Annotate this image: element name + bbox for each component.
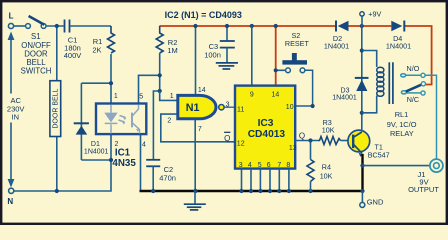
svg-text:5: 5 (139, 94, 143, 101)
svg-text:D1: D1 (91, 141, 100, 148)
GND stub (361, 191, 363, 203)
wire AC line arrow lower (10, 123, 12, 181)
svg-text:2K: 2K (92, 45, 101, 54)
svg-text:3: 3 (239, 162, 243, 169)
wire R3 to T1 base (341, 140, 353, 142)
svg-text:D3: D3 (341, 88, 350, 95)
svg-text:6: 6 (267, 162, 271, 169)
svg-text:IN: IN (12, 113, 20, 122)
junction N1 pin1 branch (158, 89, 162, 93)
wire collector up / D3 column (361, 26, 363, 132)
wire N1 pin2 + feedback (161, 114, 235, 142)
armature (406, 85, 422, 92)
wire switch to C1 (46, 25, 64, 27)
svg-text:OUTPUT: OUTPUT (408, 185, 439, 194)
junction S2/pin10 (311, 104, 315, 108)
junction door bell top (55, 24, 59, 28)
wire IC1 pin5 up (139, 75, 160, 103)
svg-text:Q: Q (224, 134, 230, 143)
svg-text:R4: R4 (322, 162, 331, 171)
IC3 bottom pin wires (242, 169, 289, 191)
wire coil bottom lead (362, 96, 377, 113)
resistor R4 (310, 141, 312, 160)
junction door bell bottom (55, 189, 59, 193)
svg-text:2: 2 (167, 117, 171, 124)
diode D1 (74, 122, 89, 124)
svg-text:RELAY: RELAY (390, 129, 414, 138)
svg-text:470n: 470n (159, 174, 176, 183)
wire D1 vertical (80, 83, 82, 160)
wire AC line arrow upper (10, 39, 12, 94)
svg-text:14: 14 (272, 91, 280, 98)
svg-text:BC547: BC547 (368, 150, 390, 159)
svg-text:1N4001: 1N4001 (324, 42, 349, 51)
svg-text:7: 7 (277, 162, 281, 169)
wire to J1 (363, 165, 430, 167)
transistor T1 (348, 130, 370, 152)
svg-text:5: 5 (258, 162, 262, 169)
svg-text:10: 10 (286, 104, 294, 111)
node N terminal (9, 188, 14, 193)
+9V node (360, 12, 364, 16)
svg-text:RESET: RESET (285, 39, 310, 48)
svg-text:14: 14 (198, 87, 206, 94)
svg-text:10K: 10K (322, 126, 335, 135)
svg-text:10K: 10K (320, 172, 333, 181)
junction R4 top (308, 138, 312, 142)
switch S2 plunger (292, 53, 297, 62)
wire rail D2 to D4 (349, 25, 392, 27)
svg-text:SWITCH: SWITCH (21, 67, 52, 76)
svg-text:1: 1 (170, 93, 174, 100)
junction pin5 branch (158, 73, 162, 77)
resistor R1 (108, 26, 115, 53)
connector J1 (430, 159, 443, 172)
wire R2 to C2 column (153, 53, 159, 160)
svg-text:13: 13 (289, 145, 297, 152)
wire D1 top branch (81, 82, 111, 84)
svg-text:9: 9 (250, 91, 254, 98)
capacitor C1 (64, 20, 66, 33)
svg-text:9V, 1C/O: 9V, 1C/O (387, 120, 417, 129)
wire D1 bottom branch (81, 159, 111, 161)
junction rail dots (193, 24, 197, 28)
wire pin13 to R3 (295, 140, 318, 142)
arrow down to N (8, 179, 15, 188)
wire emitter black (361, 154, 363, 191)
junction coil bottom branch (360, 111, 364, 115)
door bell box (50, 81, 61, 137)
junction coil top branch (360, 48, 364, 52)
svg-text:C2: C2 (164, 165, 174, 174)
wire R1 to IC1 pin1 (110, 54, 112, 104)
svg-text:400V: 400V (64, 51, 82, 60)
svg-text:IC2 (N1) = CD4093: IC2 (N1) = CD4093 (165, 10, 242, 20)
node L terminal (8, 23, 13, 28)
diode D3 (355, 77, 369, 79)
node N1 output bubble (219, 105, 224, 110)
arrow up to L (8, 32, 15, 41)
inductor coil RL1 (377, 67, 384, 96)
wire N1 pin7 (194, 119, 196, 191)
svg-text:Q: Q (299, 132, 305, 141)
junction bus dots (151, 189, 155, 193)
resistor R3 (318, 137, 341, 145)
wire N rail (14, 160, 111, 191)
diode D4 (391, 21, 402, 32)
wire IC1 pin2 down (110, 134, 112, 160)
switch S1 (26, 24, 31, 29)
wire S2 pin14 red drop (275, 26, 277, 86)
wire IC3 pin9 (251, 26, 253, 86)
wire N1 output to pin11 (224, 106, 235, 108)
svg-text:12: 12 (237, 141, 245, 148)
svg-text:4N35: 4N35 (112, 158, 136, 169)
wire N1 pin1 jog (160, 91, 178, 100)
wire coil top lead (362, 51, 377, 68)
ground symbol below bus (194, 191, 196, 204)
wire VDD rail left (160, 25, 337, 27)
wire S2 left (276, 69, 286, 71)
svg-text:7: 7 (198, 126, 202, 133)
svg-text:+9V: +9V (368, 10, 381, 19)
svg-text:1M: 1M (167, 46, 177, 55)
wire L terminal to switch (13, 25, 25, 27)
svg-text:1: 1 (114, 93, 118, 100)
svg-text:11: 11 (237, 107, 244, 114)
svg-text:S1: S1 (31, 32, 41, 41)
svg-text:8: 8 (286, 162, 290, 169)
wire S2 right to pin10 (295, 70, 312, 106)
svg-text:N: N (7, 197, 13, 206)
wire door bell bottom (56, 137, 58, 192)
ground below C3 (216, 62, 238, 64)
wire N/O line to J1 (406, 75, 437, 159)
relay contacts (401, 74, 437, 159)
svg-text:4: 4 (248, 162, 252, 169)
svg-text:N/O: N/O (407, 64, 420, 73)
wire N/C line (406, 92, 420, 94)
wire door bell top (56, 26, 58, 81)
junction emitter/J1 (360, 164, 364, 168)
diode D2 (335, 21, 337, 32)
svg-text:N/C: N/C (407, 95, 419, 104)
svg-text:DOOR BELL: DOOR BELL (53, 88, 60, 128)
svg-text:N1: N1 (186, 102, 200, 114)
svg-text:CD4013: CD4013 (248, 129, 286, 140)
svg-text:IC3: IC3 (258, 118, 274, 129)
wire rail D4 to relay corner (405, 26, 432, 85)
svg-text:1N4001: 1N4001 (332, 95, 357, 102)
svg-text:1N4001: 1N4001 (84, 149, 109, 156)
svg-text:L: L (9, 11, 14, 20)
svg-text:GND: GND (367, 198, 384, 207)
wire N1 pin14 (195, 26, 197, 95)
svg-text:4: 4 (142, 141, 146, 148)
svg-text:3: 3 (226, 101, 230, 108)
capacitor C2 (146, 159, 160, 161)
capacitor C3 (226, 26, 228, 41)
junction S2/pin14 (274, 68, 278, 72)
NAND gate N1 (CD4093) (178, 95, 216, 118)
svg-text:100n: 100n (204, 50, 221, 59)
junction R1/D1/IC1 pin1 (109, 81, 113, 85)
optocoupler IC1 4N35 (96, 104, 146, 135)
svg-text:1N4001: 1N4001 (386, 42, 411, 51)
relay core (388, 62, 390, 104)
wire IC1 pin4 down (140, 134, 142, 191)
resistor R2 (156, 26, 163, 53)
junction D1 bottom / pin2 (109, 158, 113, 162)
svg-text:RL1: RL1 (395, 110, 409, 119)
wire C1 to R1 (70, 25, 111, 27)
